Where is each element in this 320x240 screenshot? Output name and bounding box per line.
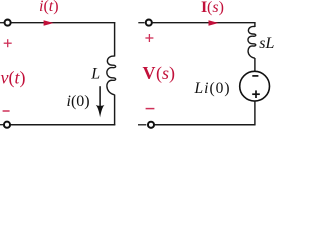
wire: left circuit top stub (0, 22, 4, 24)
wire: left circuit bottom horizontal (10, 124, 115, 126)
wire: right circuit right vertical upper (254, 22, 256, 27)
terminal: left circuit bottom (4, 122, 10, 128)
svg-text:i(t): i(t) (39, 0, 59, 15)
wire: right circuit bottom horizontal (154, 124, 255, 126)
wire: source to bottom (254, 101, 256, 125)
svg-text:sL: sL (259, 35, 274, 52)
svg-text:(s): (s) (156, 63, 175, 84)
label: plus polarity right (145, 34, 153, 42)
arrow: i(0) initial current (down) (99, 86, 101, 108)
wire: right circuit bottom stub (138, 124, 146, 126)
wire: right circuit top stub (138, 22, 144, 24)
svg-text:i(0): i(0) (67, 93, 90, 110)
label: plus polarity left (4, 39, 12, 47)
label: minus polarity right (146, 108, 155, 110)
svg-text:L: L (90, 65, 100, 82)
inductor sL coil (248, 26, 256, 58)
label: source minus (252, 75, 258, 77)
svg-text:Li(0): Li(0) (194, 80, 231, 97)
terminal: right circuit top (146, 20, 152, 26)
wire: right circuit top horizontal (152, 22, 256, 24)
label: minus polarity left (3, 110, 10, 112)
terminal: left circuit top (5, 20, 11, 26)
wire: left circuit right vertical lower (114, 95, 116, 126)
wire: coil to source (254, 58, 256, 72)
voltage source Li(0) circle (240, 71, 270, 101)
svg-text:v(t): v(t) (1, 68, 26, 89)
label: source plus (252, 90, 260, 98)
arrowhead: I(s) current direction (209, 20, 219, 26)
arrowhead: i(t) current direction (44, 20, 54, 26)
wire: left circuit top horizontal (11, 22, 115, 24)
inductor L coil (107, 56, 116, 95)
wire: left circuit bottom stub (0, 124, 4, 126)
svg-text:V: V (143, 63, 156, 83)
svg-text:(s): (s) (207, 0, 224, 16)
terminal: right circuit bottom (148, 122, 154, 128)
wire: left circuit right vertical upper (114, 22, 116, 57)
